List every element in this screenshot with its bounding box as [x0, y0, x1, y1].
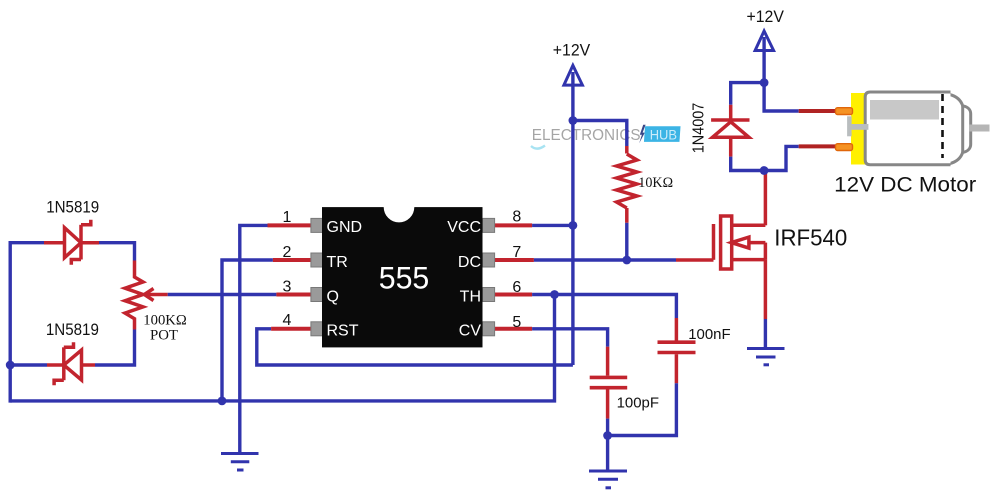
svg-text:+12V: +12V — [553, 42, 590, 60]
wire lower node to motor lower lead — [764, 146, 799, 170]
pin number 1 — [283, 209, 292, 226]
svg-text:DC: DC — [458, 254, 481, 271]
svg-text:1: 1 — [283, 209, 292, 226]
svg-text:RST: RST — [327, 323, 359, 340]
label 1N4007 — [690, 103, 707, 154]
wire +12V dot to 1N4007 top — [731, 83, 764, 105]
IC 555 pads right — [483, 218, 495, 335]
svg-text:1N5819: 1N5819 — [46, 199, 99, 217]
wire pin7 row to gate — [534, 258, 676, 261]
label +12V right — [747, 8, 784, 26]
motor M1 12V DC — [836, 92, 990, 165]
wire pin2 TR corner and vertical to rail — [222, 260, 273, 401]
ground symbol MOSFET — [747, 349, 785, 365]
pin number 3 — [283, 278, 292, 295]
svg-text:1N5819: 1N5819 — [46, 321, 99, 339]
label 100K POT — [143, 313, 187, 344]
label 1N5819 bottom — [46, 321, 99, 339]
svg-text:Q: Q — [327, 288, 339, 305]
svg-text:HUB: HUB — [650, 127, 677, 143]
label 1N5819 top — [46, 199, 99, 217]
wire +12V branch to 10K resistor — [573, 121, 627, 147]
node junction +12V / 10K branch — [569, 116, 578, 125]
capacitor C1 100nF — [658, 318, 696, 383]
svg-text:ELECTRONICS: ELECTRONICS — [532, 127, 641, 144]
svg-text:12V DC Motor: 12V DC Motor — [834, 172, 976, 196]
pin number 6 — [512, 279, 521, 296]
wire left vertical rail — [8, 241, 11, 403]
potentiometer 100K body zigzag — [125, 261, 143, 330]
wire pin5 to 100pF — [532, 329, 608, 347]
label 100pF — [617, 395, 659, 412]
watermark ELECTRONICS HUB — [531, 125, 681, 149]
IC 555 pin stubs right — [495, 225, 534, 328]
label 12V DC Motor — [834, 172, 976, 196]
svg-text:7: 7 — [512, 244, 521, 261]
svg-text:555: 555 — [379, 259, 430, 295]
wire wiper to pin3 — [168, 293, 277, 296]
IC 555 right pin labels — [447, 219, 481, 339]
svg-text:8: 8 — [512, 208, 521, 225]
node junction pin8 / +12V vertical — [569, 221, 578, 230]
IC 555 pads left — [311, 218, 323, 335]
pin number 2 — [283, 244, 292, 261]
svg-text:+12V: +12V — [747, 8, 784, 26]
svg-text:100KΩ: 100KΩ — [143, 313, 187, 329]
diode D3 1N4007 — [711, 105, 749, 157]
potentiometer wiper arrow — [144, 289, 167, 301]
node junction motor- / drain / 1N4007 — [760, 166, 769, 175]
capacitor C2 100pF — [590, 347, 628, 419]
IC 555 left pin labels — [327, 219, 363, 339]
svg-text:1N4007: 1N4007 — [690, 103, 707, 154]
svg-text:6: 6 — [512, 279, 521, 296]
ground symbol left — [221, 454, 259, 471]
label IRF540 — [774, 225, 847, 251]
svg-text:TR: TR — [327, 254, 348, 271]
wire +12V dot down to motor upper lead — [764, 83, 799, 111]
power +12V arrow left — [564, 65, 583, 365]
wire bottom diode row left — [10, 363, 47, 366]
svg-text:VCC: VCC — [447, 219, 481, 236]
label 100nF — [688, 326, 730, 343]
svg-text:5: 5 — [512, 314, 521, 331]
node junction 10K / pin7 row — [622, 256, 631, 265]
resistor R1 10K — [617, 146, 637, 223]
svg-text:IRF540: IRF540 — [774, 225, 847, 251]
pin number 5 — [512, 314, 521, 331]
svg-text:CV: CV — [459, 323, 482, 340]
wire 100pF bottom to junction — [606, 419, 609, 471]
wire pin1 GND corner and vertical to ground — [240, 225, 268, 453]
svg-text:3: 3 — [283, 278, 292, 295]
svg-text:4: 4 — [283, 312, 292, 329]
IC 555 part number text — [379, 259, 430, 295]
wire 1N4007 bottom to lower node — [731, 157, 764, 171]
transistor Q1 IRF540 — [676, 169, 765, 319]
pin number 4 — [283, 312, 292, 329]
wire motor upper red lead — [799, 109, 837, 113]
diode D1 1N5819 — [44, 220, 99, 265]
wire left top row to D1 — [10, 241, 44, 244]
wire MOSFET source to ground — [764, 319, 767, 349]
node junction 100pF / 100nF / ground — [603, 431, 612, 440]
label 10K — [638, 175, 673, 191]
svg-text:100nF: 100nF — [688, 326, 730, 343]
svg-text:2: 2 — [283, 244, 292, 261]
svg-text:TH: TH — [460, 288, 481, 305]
svg-text:POT: POT — [150, 327, 178, 343]
node junction rail / TR vertical — [218, 397, 227, 406]
diode D2 1N5819 — [47, 342, 95, 385]
wire bottom rail — [10, 295, 554, 401]
wire D2 to pot bottom — [95, 330, 135, 366]
node junction left rail / D2 row — [6, 361, 15, 370]
power +12V arrow right — [755, 31, 774, 83]
wire pin6 row — [532, 295, 676, 319]
svg-text:10KΩ: 10KΩ — [638, 175, 673, 191]
wire 10K bottom to pin7 row — [625, 223, 628, 260]
wire pin8 to +12V vertical — [532, 224, 573, 227]
svg-text:100pF: 100pF — [617, 395, 659, 412]
label +12V left — [553, 42, 590, 60]
wire motor lower red lead — [799, 144, 837, 148]
node junction +12V / motor / 1N4007 top — [760, 78, 769, 87]
node junction rail-up / pin6 row — [550, 290, 559, 299]
ground symbol center — [589, 471, 627, 488]
IC 555 pin stubs left — [268, 225, 312, 328]
pin number 8 — [512, 208, 521, 225]
IC U1 555 body — [322, 192, 483, 348]
wire 100nF bottom to junction — [608, 383, 677, 435]
svg-text:GND: GND — [327, 219, 363, 236]
wire D1 to pot top corner — [99, 243, 135, 261]
pin number 7 — [512, 244, 521, 261]
wire pin4 RST corner down and run right — [257, 329, 573, 365]
